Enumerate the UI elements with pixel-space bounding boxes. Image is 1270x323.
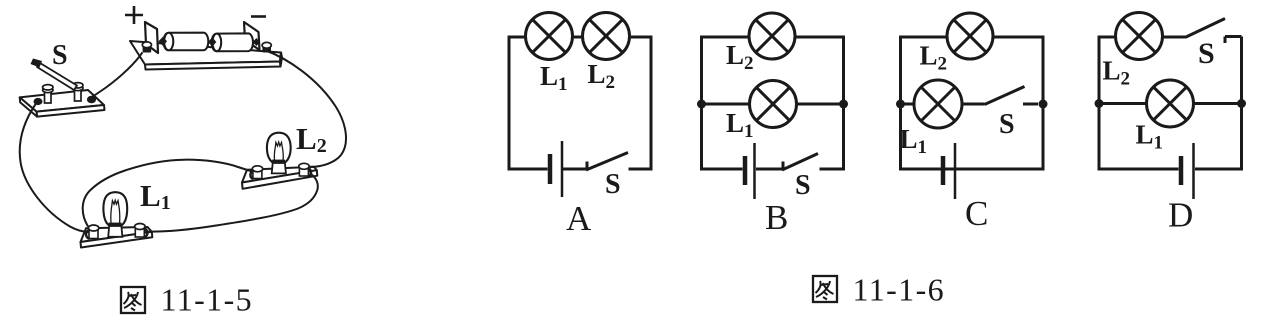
- lamp L2 (B): [749, 13, 795, 59]
- lamp L2 right terminal: [299, 163, 311, 176]
- lamp L2 left terminal: [250, 166, 262, 179]
- battery A: [548, 154, 553, 184]
- battery C: [941, 156, 946, 185]
- battery contact blobs: [159, 37, 168, 46]
- switch lever: [31, 59, 78, 91]
- svg-text:C: C: [965, 194, 988, 233]
- battery cell 2: [212, 33, 253, 51]
- wire L1 right to L2 right (bottom arc): [144, 174, 318, 232]
- wire battery- to L2 right terminal: [265, 50, 347, 167]
- wire C outer rect: [901, 37, 1044, 169]
- wire D outer rect: [1099, 37, 1179, 169]
- lamp L1 (D): [1147, 80, 1194, 127]
- wire B outer rect: [702, 37, 750, 169]
- battery left screw terminal: [142, 42, 151, 53]
- battery D: [1179, 156, 1184, 185]
- minus label: [251, 15, 266, 18]
- battery right screw terminal: [262, 42, 271, 52]
- junction dot B right: [839, 100, 848, 109]
- lamp L1 (B): [750, 81, 797, 128]
- lamp L2 bulb: [267, 133, 291, 162]
- lamp L2 (C): [947, 13, 993, 59]
- switch C: [962, 103, 985, 106]
- lamp L1 right terminal: [135, 224, 148, 238]
- switch B: [782, 162, 785, 171]
- lamp L2 (D): [1116, 13, 1163, 60]
- junction dot B left: [697, 100, 706, 109]
- svg-text:S: S: [605, 169, 621, 200]
- lamp L2 socket collar: [272, 160, 285, 163]
- switch right post: [73, 83, 83, 101]
- lamp L1 socket: [108, 226, 122, 237]
- svg-text:11-1-5: 11-1-5: [161, 282, 254, 318]
- plus label: [125, 6, 143, 24]
- middle branch D: [1099, 102, 1147, 105]
- lamp L2 socket: [272, 163, 286, 173]
- svg-text:S: S: [1198, 37, 1215, 70]
- lamp L1 (C): [914, 80, 962, 128]
- lamp L1 filament: [111, 200, 120, 223]
- wire switch to L1 left terminal: [20, 102, 89, 232]
- switch base: [20, 90, 105, 117]
- battery right end plate: [244, 22, 260, 50]
- switch D: [1163, 36, 1187, 39]
- svg-text:S: S: [795, 170, 811, 201]
- svg-text:B: B: [765, 198, 788, 237]
- lamp L1 socket collar: [109, 223, 122, 226]
- wire A left side: [509, 37, 548, 169]
- battery holder base: [130, 41, 282, 70]
- switch right knob: [87, 96, 96, 103]
- caption 图 11-1-6: [813, 276, 837, 302]
- lamp L2 base plate: [242, 167, 317, 189]
- svg-text:11-1-6: 11-1-6: [853, 272, 946, 308]
- battery cell 1: [164, 33, 209, 51]
- junction dot C left: [896, 100, 905, 109]
- battery B: [743, 156, 748, 185]
- wire between lamps A: [573, 36, 583, 39]
- caption 图 11-1-5: [121, 287, 145, 313]
- svg-text:D: D: [1168, 196, 1193, 235]
- svg-text:S: S: [52, 40, 68, 71]
- wire battery+ to switch: [89, 52, 143, 99]
- lamp L1 bulb: [103, 192, 127, 225]
- lamp L2 (A): [583, 13, 630, 60]
- switch left knob: [34, 98, 43, 105]
- junction dot D right: [1237, 99, 1246, 108]
- middle branch B: [702, 103, 750, 106]
- svg-text:A: A: [566, 199, 592, 238]
- battery left end plate: [145, 22, 158, 53]
- svg-text:S: S: [999, 109, 1015, 140]
- wire A right side: [629, 37, 652, 169]
- junction dot D left: [1095, 99, 1104, 108]
- switch left post: [43, 85, 53, 103]
- lamp L1 base plate: [81, 227, 153, 248]
- lamp L1 left terminal: [86, 225, 99, 239]
- lamp L2 filament: [274, 142, 283, 161]
- lamp L1 (A): [526, 13, 573, 60]
- middle branch C: [901, 103, 915, 106]
- wire L1 left to L2 left (top arc): [83, 160, 253, 227]
- junction dot C right: [1039, 100, 1048, 109]
- switch A: [586, 162, 589, 171]
